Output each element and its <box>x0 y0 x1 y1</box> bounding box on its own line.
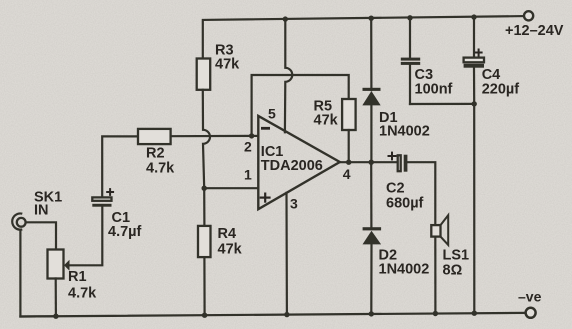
op-amp IC1 triangle <box>258 116 340 209</box>
wire: R4 bottom to rail <box>203 257 205 315</box>
R1 wiper arrow <box>64 260 70 271</box>
svg-text:TDA2006: TDA2006 <box>261 158 323 174</box>
capacitor C4 plate + (outline) <box>464 58 484 63</box>
wire: LS1 to rail <box>434 225 436 313</box>
capacitor C2 plate + (outline) <box>398 155 401 171</box>
C1 polarity plus <box>106 188 114 196</box>
wire: C2 to LS1 <box>407 162 435 225</box>
wire: pin 5 to +V rail with hop over feedback <box>285 19 292 132</box>
wire: output node <box>340 161 398 163</box>
svg-text:47k: 47k <box>314 113 339 129</box>
wire: C3 to C4 ground link <box>410 103 474 105</box>
wire: R5 bottom to output <box>348 130 350 162</box>
capacitor C1 plate + (outline) <box>92 197 111 200</box>
svg-text:IN: IN <box>34 203 49 219</box>
svg-text:47k: 47k <box>215 57 240 73</box>
wire: D1 branch <box>370 18 372 90</box>
svg-text:4.7k: 4.7k <box>68 286 97 302</box>
node: output/D1 D2 <box>369 160 374 165</box>
wire: -ve bottom rail <box>20 313 525 317</box>
svg-text:680µf: 680µf <box>386 196 424 212</box>
svg-text:4.7k: 4.7k <box>146 161 175 177</box>
C4 polarity plus <box>475 49 483 57</box>
terminal -ve <box>526 308 536 318</box>
node: rail junction C3/C4 <box>472 311 477 316</box>
node: rail junction LS1 <box>433 311 438 316</box>
capacitor C4 plate - (solid) <box>464 64 484 68</box>
svg-text:R1: R1 <box>68 269 87 285</box>
wire: R1 bottom to rail <box>55 279 57 317</box>
socket SK1 <box>12 213 22 229</box>
node: rail junction R1 <box>53 314 58 319</box>
svg-text:5: 5 <box>268 106 276 122</box>
capacitor C2 plate - (solid) <box>404 155 408 172</box>
svg-text:8Ω: 8Ω <box>443 263 463 279</box>
svg-text:4: 4 <box>343 166 351 182</box>
svg-text:3: 3 <box>290 196 298 212</box>
wire: C3 branch <box>409 18 411 58</box>
node: rail junction C4 <box>471 14 476 19</box>
node: output/R5 <box>346 160 351 165</box>
svg-text:1: 1 <box>244 167 252 183</box>
node: rail junction C3 <box>407 15 412 20</box>
node: C3/C4 junction <box>472 101 477 106</box>
svg-text:LS1: LS1 <box>443 248 470 264</box>
resistor R4 <box>198 226 211 257</box>
svg-text:C2: C2 <box>386 181 405 197</box>
svg-text:1N4002: 1N4002 <box>379 124 430 140</box>
capacitor C1 plate - (solid) <box>92 204 111 207</box>
wire: pin 3 to rail <box>285 193 288 315</box>
resistor R5 <box>342 99 356 130</box>
svg-text:R4: R4 <box>218 226 237 242</box>
node: junction feedback/pin2 <box>249 133 254 138</box>
wire: pin 1 <box>204 187 258 189</box>
node: rail junction pin3 <box>284 312 289 317</box>
potentiometer R1 <box>48 250 64 279</box>
svg-text:100nf: 100nf <box>415 82 453 98</box>
svg-text:R2: R2 <box>146 146 165 162</box>
wire: feedback from pin2 node to R5 top <box>252 75 349 136</box>
wire: jack sleeve to rail <box>20 230 56 317</box>
svg-text:–ve: –ve <box>518 289 542 305</box>
speaker LS1 <box>431 225 440 237</box>
diode D1 <box>363 88 381 91</box>
wire: C4 branch <box>473 17 475 58</box>
resistor R2 <box>138 129 171 144</box>
diode D2 <box>363 227 382 230</box>
svg-text:47k: 47k <box>218 242 243 258</box>
wire: input to R2 <box>102 136 138 197</box>
terminal +12-24V <box>524 11 533 20</box>
capacitor C3 <box>401 58 420 61</box>
svg-text:2: 2 <box>244 139 252 155</box>
svg-text:220µf: 220µf <box>482 82 520 98</box>
wire: +V top rail <box>203 16 524 58</box>
svg-text:1N4002: 1N4002 <box>379 262 430 278</box>
wire: R2 to pin 2 <box>171 135 259 138</box>
node: junction R3/R4/pin1 <box>202 186 207 191</box>
wire: D2 branch <box>370 162 372 229</box>
wire: C1 to R1 wiper <box>68 207 102 266</box>
resistor R3 <box>197 59 211 90</box>
IC1 minus input sign <box>261 127 270 130</box>
svg-text:4.7µf: 4.7µf <box>108 224 142 240</box>
node: rail junction D2 <box>369 311 374 316</box>
node: rail junction D1 <box>369 16 374 21</box>
capacitor C2 plus <box>388 152 397 161</box>
node: rail junction R4 <box>202 313 207 318</box>
svg-text:+12–24V: +12–24V <box>505 23 564 39</box>
IC1 plus input sign <box>260 193 271 203</box>
node: rail junction pin5 <box>283 16 288 21</box>
wire: C4 junction to rail <box>473 104 475 313</box>
wire: R3 bottom to R4 with hop over pin2 wire <box>203 90 210 226</box>
wire: jack tip to R1 top <box>26 222 56 249</box>
